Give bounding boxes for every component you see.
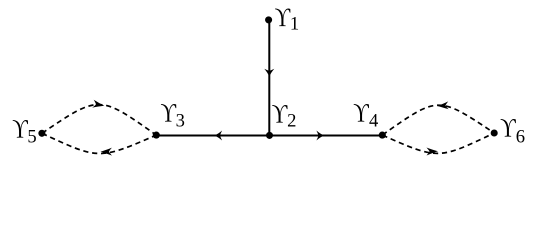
- svg-text:ϒ: ϒ: [275, 4, 291, 32]
- svg-text:6: 6: [516, 127, 525, 148]
- svg-text:ϒ: ϒ: [161, 100, 177, 128]
- svg-text:ϒ: ϒ: [353, 100, 369, 128]
- svg-text:5: 5: [27, 127, 36, 148]
- svg-text:4: 4: [369, 111, 378, 132]
- svg-text:3: 3: [176, 110, 185, 131]
- svg-text:ϒ: ϒ: [12, 116, 28, 144]
- svg-text:ϒ: ϒ: [272, 101, 288, 129]
- svg-text:2: 2: [287, 111, 296, 132]
- svg-text:ϒ: ϒ: [500, 115, 516, 143]
- svg-text:1: 1: [290, 14, 299, 35]
